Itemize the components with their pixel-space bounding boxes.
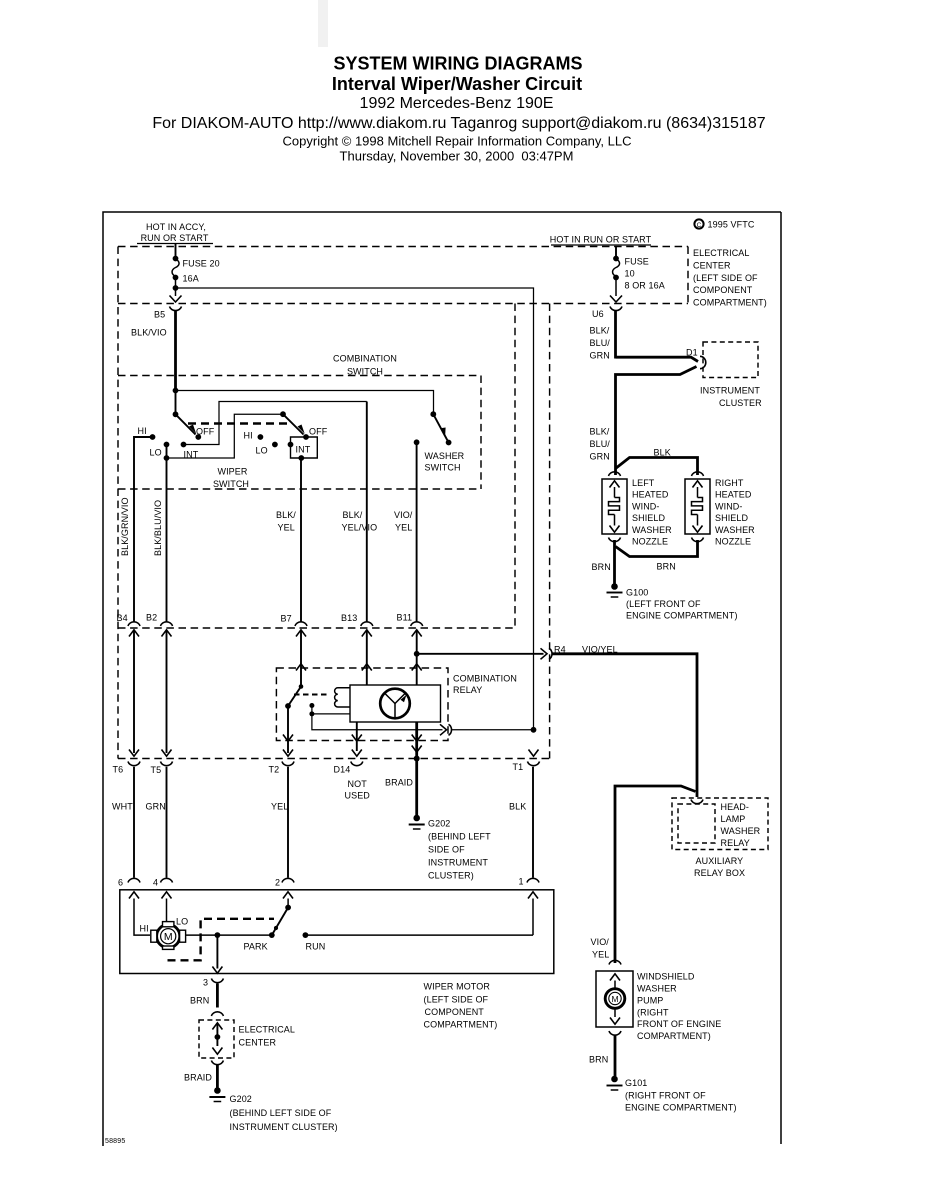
svg-text:1: 1 [519, 877, 524, 887]
connector B7 [281, 614, 308, 637]
wiper motor label [424, 982, 498, 1030]
connector T1 [513, 750, 540, 773]
svg-text:(RIGHT: (RIGHT [637, 1008, 669, 1018]
wire B2-T5 [166, 630, 168, 753]
svg-text:B7: B7 [281, 614, 292, 624]
svg-text:HOT IN ACCY,: HOT IN ACCY, [146, 222, 206, 232]
svg-text:B4: B4 [117, 613, 128, 623]
svg-text:YEL/VIO: YEL/VIO [342, 523, 378, 533]
wire BLK T1 [509, 767, 533, 878]
wiper switch 2 LO contact [256, 442, 278, 456]
svg-text:D14: D14 [334, 765, 351, 775]
wire B13 to relay [366, 630, 368, 685]
connector R4 arrow and cup [541, 645, 566, 660]
svg-text:(BEHIND LEFT: (BEHIND LEFT [428, 832, 491, 842]
wiper switch 2 HI contact [244, 431, 264, 441]
ground G202 lower [209, 1087, 337, 1132]
svg-text:LAMP: LAMP [721, 814, 746, 824]
svg-text:6: 6 [118, 878, 123, 888]
svg-text:HI: HI [140, 924, 149, 934]
svg-text:BRN: BRN [589, 1055, 608, 1065]
combination relay label [453, 674, 517, 696]
svg-text:G202: G202 [428, 819, 450, 829]
connector T5 [151, 750, 173, 776]
svg-text:LO: LO [176, 917, 188, 927]
wire B7 to relay [300, 630, 302, 687]
wire fuse20 junction to T1 feed [173, 285, 534, 730]
washer switch blade [430, 411, 451, 445]
svg-text:RUN: RUN [306, 942, 326, 952]
svg-text:B13: B13 [341, 613, 357, 623]
svg-text:INSTRUMENT CLUSTER): INSTRUMENT CLUSTER) [230, 1122, 338, 1132]
svg-text:HEATED: HEATED [715, 490, 752, 500]
svg-text:FUSE: FUSE [625, 257, 649, 267]
connector B13 [341, 613, 373, 637]
connector D14 [334, 750, 371, 801]
svg-text:HOT IN RUN OR START: HOT IN RUN OR START [550, 235, 652, 245]
wire VIO/YEL to auxiliary relay box [553, 645, 698, 798]
right nozzle label [715, 478, 755, 547]
connector B5 arrow and cup [154, 296, 182, 320]
svg-text:BLK: BLK [654, 448, 671, 458]
wire YEL T2 [271, 767, 288, 878]
svg-text:COMPARTMENT): COMPARTMENT) [424, 1020, 498, 1030]
svg-text:BRN: BRN [190, 996, 209, 1006]
svg-text:NOZZLE: NOZZLE [715, 537, 751, 547]
wiper motor box [120, 890, 554, 974]
connector D1 [686, 348, 706, 369]
svg-text:BLK/: BLK/ [590, 427, 610, 437]
svg-text:WASHER: WASHER [637, 984, 677, 994]
combination switch dashed box [118, 376, 481, 490]
connector 1 [519, 877, 540, 887]
svg-text:BLK: BLK [509, 802, 526, 812]
svg-text:YEL: YEL [278, 523, 295, 533]
wire BLK/BLU/GRN label lower [590, 427, 611, 462]
scan artifact strip [318, 0, 328, 47]
headlamp washer relay inner dashed box [678, 804, 715, 843]
wire BLK/VIO B5 feed [131, 311, 176, 391]
svg-text:INT: INT [296, 445, 311, 455]
svg-text:WIND-: WIND- [632, 501, 660, 511]
windshield washer pump label [637, 972, 721, 1042]
svg-text:T2: T2 [269, 765, 280, 775]
svg-text:CENTER: CENTER [693, 260, 731, 270]
wiper switch 1 INT contact [181, 402, 367, 460]
connector B11 [397, 613, 423, 637]
copyright mark 1995 VFTC [694, 219, 754, 229]
relay body box [350, 685, 441, 722]
svg-text:4: 4 [153, 878, 158, 888]
svg-text:RIGHT: RIGHT [715, 478, 744, 488]
node HOT IN RUN OR START [550, 235, 652, 246]
svg-text:LO: LO [256, 446, 268, 456]
svg-text:SWITCH: SWITCH [213, 479, 249, 489]
washer switch label [425, 451, 465, 473]
ground G100 [607, 540, 738, 621]
connector T6 [113, 750, 141, 775]
electrical center lower internals [211, 1023, 223, 1065]
wiper switch label [213, 467, 249, 490]
svg-text:U6: U6 [592, 309, 604, 319]
connector U6 arrow and cup [592, 296, 622, 320]
electrical center lower label [239, 1025, 296, 1048]
svg-text:BLK/BLU/VIO: BLK/BLU/VIO [153, 500, 163, 556]
harness dashed edge x515 [514, 304, 516, 629]
svg-text:2: 2 [275, 878, 280, 888]
wire B11 to relay [416, 630, 418, 685]
headlamp washer relay connector cup [691, 800, 703, 804]
svg-text:SHIELD: SHIELD [715, 513, 749, 523]
svg-text:GRN: GRN [590, 452, 610, 462]
wiper switch 1 feed junction [173, 388, 434, 413]
svg-text:BLK/GRN/VIO: BLK/GRN/VIO [120, 497, 130, 556]
combination relay dashed box [276, 668, 448, 741]
park switch RUN contact [303, 899, 534, 952]
svg-text:YEL: YEL [271, 802, 288, 812]
relay switch blade [285, 684, 303, 709]
wire BRAID to G202 [184, 1065, 217, 1088]
svg-text:(LEFT SIDE OF: (LEFT SIDE OF [424, 995, 489, 1005]
wiper motor M [134, 899, 188, 950]
svg-text:COMBINATION: COMBINATION [333, 354, 397, 364]
svg-text:CLUSTER): CLUSTER) [428, 871, 474, 881]
electrical center dashed box [118, 247, 688, 304]
ground G202 upper [409, 815, 491, 881]
svg-text:NOT: NOT [348, 779, 368, 789]
svg-text:WASHER: WASHER [715, 525, 755, 535]
svg-text:LO: LO [150, 448, 162, 458]
svg-text:FRONT OF ENGINE: FRONT OF ENGINE [637, 1019, 721, 1029]
connector T2 [269, 750, 295, 775]
right heated windshield washer nozzle [685, 472, 710, 542]
svg-text:GRN: GRN [146, 802, 166, 812]
relay input arrows [296, 664, 422, 671]
svg-text:WHT: WHT [112, 802, 133, 812]
svg-text:PARK: PARK [244, 942, 268, 952]
svg-text:8 OR 16A: 8 OR 16A [625, 281, 665, 291]
svg-text:B2: B2 [146, 613, 157, 623]
left heated windshield washer nozzle [602, 472, 627, 542]
svg-text:INSTRUMENT: INSTRUMENT [700, 386, 760, 396]
park switch blade [272, 899, 291, 936]
svg-text:T1: T1 [513, 762, 524, 772]
svg-text:M: M [164, 931, 173, 943]
svg-text:WASHER: WASHER [721, 826, 761, 836]
connector B2 [146, 613, 173, 637]
svg-text:WASHER: WASHER [632, 525, 672, 535]
wire BLK nozzle jumper [616, 448, 698, 476]
node R4 junction [414, 651, 544, 657]
svg-text:BLU/: BLU/ [590, 338, 611, 348]
wire BRN pump to G101 [589, 1035, 615, 1076]
svg-text:ELECTRICAL: ELECTRICAL [693, 248, 750, 258]
park linkage dashed [168, 919, 275, 961]
svg-text:CENTER: CENTER [239, 1038, 277, 1048]
washer switch contact [414, 439, 420, 621]
svg-text:RELAY: RELAY [453, 685, 482, 695]
electrical center lower dashed box [199, 1020, 234, 1058]
svg-text:LEFT: LEFT [632, 478, 655, 488]
svg-text:B5: B5 [154, 310, 165, 320]
svg-text:BRN: BRN [592, 562, 611, 572]
svg-text:WIND-: WIND- [715, 501, 743, 511]
svg-text:10: 10 [625, 269, 635, 279]
wiper motor input arrows [129, 892, 538, 899]
svg-text:16A: 16A [183, 274, 199, 284]
svg-text:AUXILIARY: AUXILIARY [696, 856, 744, 866]
wire T2 from relay blade [283, 706, 293, 753]
svg-text:HI: HI [244, 431, 253, 441]
svg-text:GRN: GRN [590, 351, 610, 361]
svg-text:(RIGHT FRONT OF: (RIGHT FRONT OF [625, 1091, 706, 1101]
wiper motor park feed wire 3 [203, 935, 223, 987]
svg-text:SYSTEM WIRING DIAGRAMS: SYSTEM WIRING DIAGRAMS [333, 54, 582, 74]
svg-text:BLK/: BLK/ [343, 510, 363, 520]
wiper switch 2 blade [280, 411, 309, 440]
svg-text:SHIELD: SHIELD [632, 513, 666, 523]
svg-text:ELECTRICAL: ELECTRICAL [239, 1025, 296, 1035]
svg-text:WIPER MOTOR: WIPER MOTOR [424, 982, 491, 992]
svg-text:HEATED: HEATED [632, 490, 669, 500]
svg-text:YEL: YEL [592, 950, 609, 960]
page border frame [103, 212, 781, 1146]
svg-text:CLUSTER: CLUSTER [719, 398, 762, 408]
headlamp washer relay label [721, 802, 761, 848]
wire GRN T5 [146, 767, 167, 878]
svg-text:G101: G101 [625, 1078, 647, 1088]
wire LO1 to switch 2 pivot [167, 414, 283, 458]
wire B13 vertical [366, 402, 368, 622]
ground G101 [607, 1076, 737, 1113]
combination switch label [333, 354, 397, 377]
wiper switch 1 HI contact [134, 426, 155, 622]
wire BRN motor to electrical center [190, 984, 217, 1008]
svg-text:ENGINE COMPARTMENT): ENGINE COMPARTMENT) [625, 1103, 737, 1113]
svg-text:WIPER: WIPER [217, 467, 247, 477]
wire label BLK/YEL/VIO [342, 510, 378, 533]
relay D14 stub [352, 722, 362, 751]
svg-text:SIDE OF: SIDE OF [428, 845, 465, 855]
auxiliary relay box label [694, 856, 745, 878]
svg-text:(LEFT FRONT OF: (LEFT FRONT OF [626, 599, 701, 609]
wire B7 from INT box [300, 458, 302, 622]
relay coil [335, 688, 350, 707]
svg-text:COMPONENT: COMPONENT [693, 285, 753, 295]
park switch PARK contact [244, 932, 275, 951]
auxiliary relay box outer dashed [672, 798, 768, 850]
svg-text:For DIAKOM-AUTO http://www.dia: For DIAKOM-AUTO http://www.diakom.ru Tag… [152, 115, 765, 132]
wire label VIO/YEL [394, 510, 413, 533]
svg-text:BRN: BRN [657, 562, 676, 572]
svg-text:58895: 58895 [105, 1138, 125, 1145]
connector 2 [275, 878, 294, 888]
svg-text:FUSE 20: FUSE 20 [183, 259, 220, 269]
svg-text:RELAY: RELAY [721, 838, 750, 848]
wire label BLK/YEL [276, 510, 296, 533]
svg-text:INSTRUMENT: INSTRUMENT [428, 858, 488, 868]
svg-text:HI: HI [138, 426, 147, 436]
svg-text:Copyright © 1998 Mitchell Repa: Copyright © 1998 Mitchell Repair Informa… [283, 134, 632, 149]
svg-text:C: C [697, 222, 702, 229]
fuse 10 8 OR 16A [613, 247, 665, 297]
svg-text:WINDSHIELD: WINDSHIELD [637, 972, 695, 982]
left nozzle label [632, 478, 672, 547]
svg-text:VIO/: VIO/ [591, 937, 610, 947]
svg-text:BLU/: BLU/ [590, 439, 611, 449]
svg-text:BLK/: BLK/ [276, 510, 296, 520]
wire WHT T6 [112, 767, 134, 878]
svg-text:OFF: OFF [309, 427, 328, 437]
wiper motor output wire [186, 932, 272, 938]
svg-text:1992 Mercedes-Benz 190E: 1992 Mercedes-Benz 190E [360, 95, 554, 112]
svg-text:BLK/VIO: BLK/VIO [131, 328, 167, 338]
electrical center label [693, 248, 767, 308]
svg-text:M: M [611, 994, 618, 1004]
relay output wire to T1 junction [312, 714, 536, 735]
wire BLK/BLU/GRN to instrument cluster [590, 311, 699, 475]
svg-text:HEAD-: HEAD- [721, 802, 750, 812]
wiper switch 1 LO contact [150, 442, 170, 622]
wiper switch 1 blade [173, 411, 202, 440]
svg-text:YEL: YEL [395, 523, 412, 533]
connector row T dashed line [118, 758, 550, 760]
headlamp washer relay feed corner [615, 786, 696, 963]
relay timer motor circle [380, 689, 410, 719]
windshield washer pump [596, 960, 633, 1035]
svg-text:USED: USED [345, 791, 371, 801]
connector row B dashed line [118, 627, 515, 629]
connector 6 [118, 878, 140, 888]
svg-text:COMBINATION: COMBINATION [453, 674, 517, 684]
svg-text:(BEHIND LEFT SIDE OF: (BEHIND LEFT SIDE OF [230, 1108, 332, 1118]
relay blade linkage dashed [294, 694, 330, 696]
svg-text:WASHER: WASHER [425, 451, 465, 461]
wiper switch 2 INT box [288, 427, 328, 461]
svg-text:BRAID: BRAID [184, 1073, 212, 1083]
node HOT IN ACCY RUN OR START [137, 222, 213, 244]
svg-text:OFF: OFF [196, 427, 215, 437]
wire BRN nozzle jumper [592, 540, 698, 572]
connector B4 [117, 613, 141, 637]
svg-text:B11: B11 [397, 613, 413, 623]
svg-text:VIO/: VIO/ [394, 510, 413, 520]
svg-text:COMPARTMENT): COMPARTMENT) [637, 1031, 711, 1041]
svg-text:BRAID: BRAID [385, 778, 413, 788]
harness left dashed edge [117, 247, 119, 759]
instrument cluster dashed box [700, 342, 762, 408]
svg-text:T5: T5 [151, 765, 162, 775]
svg-text:SWITCH: SWITCH [425, 463, 461, 473]
svg-text:(LEFT SIDE OF: (LEFT SIDE OF [693, 273, 758, 283]
svg-text:ENGINE COMPARTMENT): ENGINE COMPARTMENT) [626, 611, 738, 621]
relay braid stub [412, 722, 422, 816]
harness dashed edge x549 [549, 304, 551, 759]
svg-text:G100: G100 [626, 588, 648, 598]
svg-text:RELAY BOX: RELAY BOX [694, 868, 745, 878]
svg-text:NOZZLE: NOZZLE [632, 537, 668, 547]
relay contact dots [309, 703, 350, 716]
svg-text:COMPONENT: COMPONENT [425, 1007, 485, 1017]
svg-text:T6: T6 [113, 765, 124, 775]
svg-text:G202: G202 [230, 1094, 252, 1104]
svg-text:1995 VFTC: 1995 VFTC [708, 220, 755, 230]
svg-text:Interval Wiper/Washer Circuit: Interval Wiper/Washer Circuit [332, 74, 582, 94]
wire B4-T6 [133, 630, 135, 753]
svg-text:Thursday, November 30, 2000 0: Thursday, November 30, 2000 03:47PM [340, 149, 574, 164]
svg-text:BLK/: BLK/ [590, 326, 610, 336]
wire VIO/YEL pump label [591, 937, 610, 960]
electrical center lower connector in [211, 1012, 223, 1030]
svg-text:COMPARTMENT): COMPARTMENT) [693, 298, 767, 308]
fuse 20 16A [172, 244, 220, 297]
svg-text:PUMP: PUMP [637, 996, 663, 1006]
svg-text:RUN OR START: RUN OR START [141, 233, 209, 243]
svg-text:3: 3 [203, 978, 208, 988]
connector 4 [153, 878, 173, 888]
switch gang dashed link [188, 422, 290, 424]
svg-text:D1: D1 [686, 348, 698, 358]
